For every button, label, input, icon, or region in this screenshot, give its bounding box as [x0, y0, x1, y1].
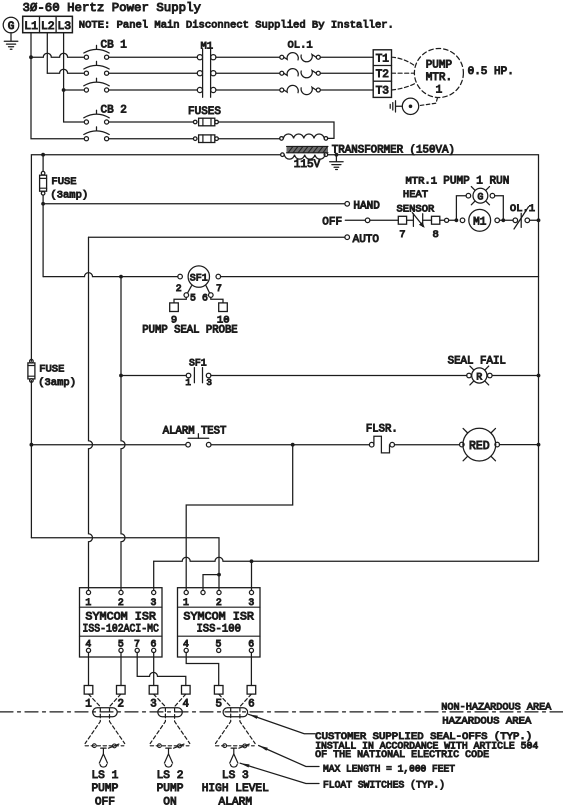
wire rail to fuse1 [42, 155, 44, 172]
svg-text:2: 2 [216, 597, 222, 608]
selector AUTO terminal [345, 235, 350, 240]
ISS-102 top pin 1 [86, 590, 90, 594]
svg-text:MAX LENGTH = 1,000 FEET: MAX LENGTH = 1,000 FEET [323, 764, 455, 775]
ISS-102 top pin 3 [152, 590, 156, 594]
wire seal fail rung right [211, 375, 467, 377]
ISS-102 bottom pin 5 [119, 648, 123, 652]
selector OFF terminal [365, 218, 370, 223]
svg-text:7: 7 [134, 639, 140, 650]
wire AUTO down to ISR pin1 [89, 237, 93, 590]
svg-text:3Ø-60 Hertz Power Supply: 3Ø-60 Hertz Power Supply [23, 1, 202, 15]
svg-text:CB 1: CB 1 [101, 40, 128, 52]
wires OL.1 to terminals T [320, 56, 373, 58]
junction rail / alarm rung [537, 443, 541, 447]
wire L3 drop to CB1 pole3 and down to CB2 pole1 [63, 33, 65, 90]
svg-text:SF1: SF1 [189, 357, 207, 368]
svg-text:5: 5 [118, 639, 124, 650]
svg-text:AUTO: AUTO [353, 234, 380, 246]
leader arrow to seal-off [249, 714, 316, 733]
field terminal 1 square [84, 686, 93, 695]
ISS-102 bottom pin 4 [86, 648, 90, 652]
svg-text:5: 5 [190, 293, 196, 304]
svg-text:NOTE: Panel Main Disconnect Su: NOTE: Panel Main Disconnect Supplied By … [79, 20, 394, 32]
wire pin2 vertical with junctions [121, 277, 125, 591]
wire left rail bottom to ISS-100 pin2 [31, 538, 219, 591]
ISS-100 top pin 3 [249, 590, 253, 594]
coil M1 [460, 218, 465, 223]
wire CB2 pole1 to fuse [109, 121, 194, 123]
wire fuse1 to transformer primary right [218, 122, 334, 138]
pilot light G [466, 193, 471, 198]
probe terminal 9 square [170, 303, 179, 312]
contactor M1 contacts [202, 49, 204, 98]
wire FLSR to RED light [395, 444, 460, 446]
svg-text:CB 2: CB 2 [101, 104, 127, 116]
svg-text:LS 3: LS 3 [222, 770, 249, 782]
svg-text:3: 3 [206, 377, 212, 388]
ISS-102 top pin 2 [119, 590, 123, 594]
wire ISS-102 pin6 to terminal 3 [153, 653, 155, 686]
svg-text:FLSR.: FLSR. [366, 424, 398, 436]
svg-text:FUSE: FUSE [39, 364, 64, 376]
fuse F1 3amp vertical [41, 171, 45, 175]
junction fuse1/HAND rung [41, 202, 45, 206]
wire SF1 rung left [43, 273, 178, 277]
svg-text:6: 6 [248, 698, 254, 710]
overload OL.1 NC contact [503, 219, 513, 221]
svg-text:7: 7 [399, 229, 405, 241]
transformer core [287, 146, 329, 152]
svg-text:ALARM TEST: ALARM TEST [163, 426, 227, 438]
svg-text:G: G [8, 21, 15, 33]
svg-text:PUMP 1 RUN: PUMP 1 RUN [443, 176, 509, 188]
wire CB2 pole2 to fuse [109, 138, 194, 140]
svg-text:PUMP: PUMP [157, 783, 184, 795]
junction right rail / coil rung [537, 218, 541, 222]
svg-text:ON: ON [163, 796, 176, 808]
float switch LS2 [150, 694, 165, 743]
svg-text:1: 1 [85, 597, 91, 608]
svg-text:4: 4 [183, 698, 189, 710]
svg-text:2: 2 [118, 597, 124, 608]
wire alarm rung left [31, 444, 185, 446]
wire secondary right to right rail [328, 155, 539, 561]
svg-text:T3: T3 [376, 86, 389, 98]
wire right rail bottom to ISS boxes [154, 557, 539, 561]
svg-text:SF1: SF1 [190, 274, 208, 285]
svg-text:SENSOR: SENSOR [397, 203, 436, 215]
fuse primary top [193, 120, 197, 124]
svg-text:6: 6 [151, 639, 157, 650]
ISS-100 top pin 1 [184, 590, 188, 594]
svg-text:SYMCOM ISR: SYMCOM ISR [85, 611, 156, 623]
svg-text:115V: 115V [294, 159, 321, 171]
transformer secondary winding [281, 153, 285, 157]
wire HAND rung [43, 203, 345, 205]
wire junction down to ISS-100 pin3 [251, 561, 253, 590]
probe terminal 10 square [219, 303, 228, 312]
float switch LS1 [85, 694, 100, 743]
svg-text:MTR.: MTR. [426, 72, 452, 84]
svg-text:R: R [476, 373, 482, 384]
svg-text:L2: L2 [41, 21, 55, 33]
overload OL.1 heater elements [280, 55, 284, 59]
motor PUMP MTR. 1 dashed circle [414, 49, 463, 98]
relay SYMCOM ISR ISS-100 box [178, 588, 261, 657]
svg-text:0.5 HP.: 0.5 HP. [468, 66, 514, 78]
svg-text:SEAL FAIL: SEAL FAIL [448, 355, 506, 367]
wire alarm junction down to ISS-100 pin1 [186, 445, 293, 591]
float switch LS3 [216, 694, 231, 743]
svg-text:LS 2: LS 2 [157, 770, 184, 782]
wire fuse1 to HAND rung and down [42, 195, 44, 277]
seal-off fitting 2 [158, 708, 183, 717]
svg-text:OFF: OFF [322, 217, 342, 229]
wire ISS-102 pin3 up [153, 561, 155, 590]
wire elbow to ISS-100 extra pin [203, 575, 219, 591]
svg-text:OFF: OFF [95, 796, 115, 808]
field terminal 2 square [117, 686, 126, 695]
junction L3/CB1 [62, 88, 66, 92]
svg-text:8: 8 [432, 229, 438, 241]
terminal 8 square [432, 216, 440, 224]
motor ground wire dashed [419, 98, 437, 106]
svg-text:1: 1 [436, 85, 443, 97]
junction bottom rail / ISS-100 pin3 [250, 559, 254, 563]
wire L2 drop to CB1 pole2 [46, 33, 48, 73]
svg-text:L1: L1 [24, 21, 38, 33]
svg-text:MTR.1: MTR.1 [406, 176, 438, 188]
wire fuse2 to transformer primary left [218, 138, 279, 140]
svg-text:L3: L3 [57, 21, 71, 33]
svg-text:NON-HAZARDOUS AREA: NON-HAZARDOUS AREA [441, 702, 552, 714]
fuse primary bottom [193, 137, 197, 141]
svg-text:G: G [477, 193, 483, 204]
motor chassis ground symbol [396, 105, 402, 107]
leader arrow to float switch cable [259, 746, 319, 767]
heat sensor contact [407, 219, 414, 221]
svg-text:T2: T2 [376, 69, 389, 81]
svg-text:LS 1: LS 1 [91, 770, 118, 782]
wire secondary left to left rail [31, 155, 280, 362]
transformer T1 primary winding [280, 137, 284, 141]
svg-text:OL.1: OL.1 [510, 203, 535, 215]
ISS-100 bottom pin 5 [217, 648, 221, 652]
ground electrode G circle [3, 17, 19, 33]
junction pin2 elbow [217, 573, 221, 577]
wires M1 to OL.1 [216, 56, 280, 58]
svg-text:4: 4 [85, 639, 91, 650]
wire ISS-102 pin4 to terminal 1 [88, 653, 90, 686]
field terminal 6 square [247, 686, 256, 695]
svg-text:OL.1: OL.1 [288, 40, 313, 52]
svg-text:FUSES: FUSES [188, 106, 221, 118]
junction SF1 rung / pin2 wire [119, 275, 123, 279]
circuit breaker CB2 2 poles [84, 120, 88, 124]
junction top rail / fuse1 [41, 153, 45, 157]
svg-text:FUSE: FUSE [51, 176, 76, 188]
svg-text:6: 6 [202, 293, 208, 304]
svg-text:(3amp): (3amp) [50, 190, 88, 202]
svg-text:1: 1 [185, 377, 191, 388]
contact SF1 NO [186, 373, 191, 378]
ISS-100 bottom pin 4 [184, 648, 188, 652]
SF1 probe terminal 6 [206, 286, 209, 293]
junction coil branch left [455, 218, 459, 222]
wire branch up to G light [456, 196, 466, 221]
wire terminal 6 to probe 10 [211, 297, 223, 303]
svg-text:FLOAT SWITCHES (TYP.): FLOAT SWITCHES (TYP.) [323, 780, 445, 791]
ground symbol below G [10, 33, 12, 41]
relay SYMCOM ISR ISS-102ACI-MC box [80, 588, 163, 657]
ISS-100 bottom pin 6 [249, 648, 253, 652]
terminal block L1 L2 L3 [23, 16, 73, 32]
svg-text:ALARM: ALARM [219, 796, 253, 808]
wire seal fail rung left [121, 375, 186, 377]
svg-text:PUMP: PUMP [91, 783, 118, 795]
svg-text:OF THE NATIONAL ELECTRIC CODE: OF THE NATIONAL ELECTRIC CODE [315, 749, 489, 760]
non-hazardous / hazardous boundary dash-dot line [0, 711, 563, 713]
svg-text:ISS-100: ISS-100 [196, 624, 241, 636]
circuit breaker CB1 3 poles [84, 55, 88, 59]
wire SF1 rung right to rail [221, 276, 539, 278]
ISS-100 top pin 2 [217, 590, 221, 594]
svg-text:5: 5 [216, 639, 222, 650]
wire OFF to heat sensor [370, 219, 398, 221]
svg-text:3: 3 [150, 698, 156, 710]
fuse F2 3amp vertical [30, 359, 34, 363]
wire terminal 5 to probe 9 [174, 297, 186, 303]
svg-text:6: 6 [248, 639, 254, 650]
pilot light R seal fail [467, 373, 472, 378]
dashed wires T1 T2 T3 to motor [392, 57, 415, 66]
svg-text:HEAT: HEAT [403, 189, 428, 201]
wire ISS-100 pin6 to terminal 6 [250, 653, 252, 686]
wires CB1 to M1 contacts [109, 56, 197, 58]
terminal 7 square [398, 216, 406, 224]
svg-text:PUMP SEAL PROBE: PUMP SEAL PROBE [142, 324, 237, 336]
svg-text:HAZARDOUS AREA: HAZARDOUS AREA [442, 715, 532, 727]
svg-text:5: 5 [215, 698, 221, 710]
seal fail relay SF1 [178, 274, 183, 279]
transformer secondary ground [335, 153, 339, 157]
ISS-100 top extra pin [201, 590, 205, 594]
contact FLSR [369, 442, 374, 447]
wire OFF stub [345, 219, 365, 221]
svg-text:(3amp): (3amp) [38, 377, 76, 389]
svg-text:3: 3 [151, 597, 157, 608]
svg-text:1: 1 [85, 698, 91, 710]
svg-text:2: 2 [118, 698, 124, 710]
svg-text:1: 1 [183, 597, 189, 608]
svg-text:RED: RED [469, 440, 490, 453]
terminal block T1 T2 T3 [373, 50, 391, 98]
svg-text:7: 7 [216, 283, 222, 294]
wire sensor to coil node [440, 219, 445, 221]
svg-text:HAND: HAND [353, 200, 380, 212]
svg-text:T1: T1 [376, 54, 390, 66]
seal-off fitting 1 [93, 708, 118, 717]
ISS-102 bottom pin 6 [152, 648, 156, 652]
wire ISS-100 pin4 to terminal 5 [186, 653, 219, 686]
wire AUTO rung [89, 236, 345, 238]
field terminal 4 square [182, 686, 191, 695]
junction left rail / alarm rung [30, 443, 34, 447]
svg-text:4: 4 [183, 639, 189, 650]
pushbutton ALARM TEST [186, 442, 191, 447]
selector HAND terminal [345, 202, 350, 207]
field terminal 3 square [149, 686, 158, 695]
svg-text:M1: M1 [473, 216, 487, 228]
junction coil branch right [501, 218, 505, 222]
svg-text:2: 2 [176, 283, 182, 294]
pilot light RED [460, 442, 465, 447]
junction pin2 wire / seal fail rung [119, 374, 123, 378]
field terminal 5 square [214, 686, 223, 695]
wire G light to branch right [495, 196, 504, 221]
wire R light to rail [492, 375, 538, 377]
wire ISS-102 pin7 to terminal 4 [137, 653, 186, 686]
wire RED light to rail [500, 444, 539, 446]
svg-text:PUMP: PUMP [426, 60, 453, 72]
wire ISS-102 pin5 to terminal 2 [120, 653, 122, 686]
svg-text:SYMCOM ISR: SYMCOM ISR [183, 611, 254, 623]
SF1 probe terminal 5 [188, 286, 192, 293]
ISS-102 bottom pin 7 [135, 648, 139, 652]
seal-off fitting 3 [223, 708, 248, 717]
wire alarm rung middle [211, 444, 369, 446]
junction alarm rung / ISS-100 feed [291, 443, 295, 447]
wire L1 drop to CB1 pole1 and down to CB2 pole2 [30, 33, 32, 58]
svg-text:HIGH LEVEL: HIGH LEVEL [202, 783, 269, 795]
leader arrow to float [240, 763, 319, 783]
svg-text:3: 3 [248, 597, 254, 608]
junction L1/CB1 [29, 55, 33, 59]
junction rail / seal fail rung [537, 374, 541, 378]
motor ground circle [402, 98, 418, 114]
svg-text:ISS-102ACI-MC: ISS-102ACI-MC [82, 624, 159, 636]
wire left rail below fuse [30, 381, 32, 538]
